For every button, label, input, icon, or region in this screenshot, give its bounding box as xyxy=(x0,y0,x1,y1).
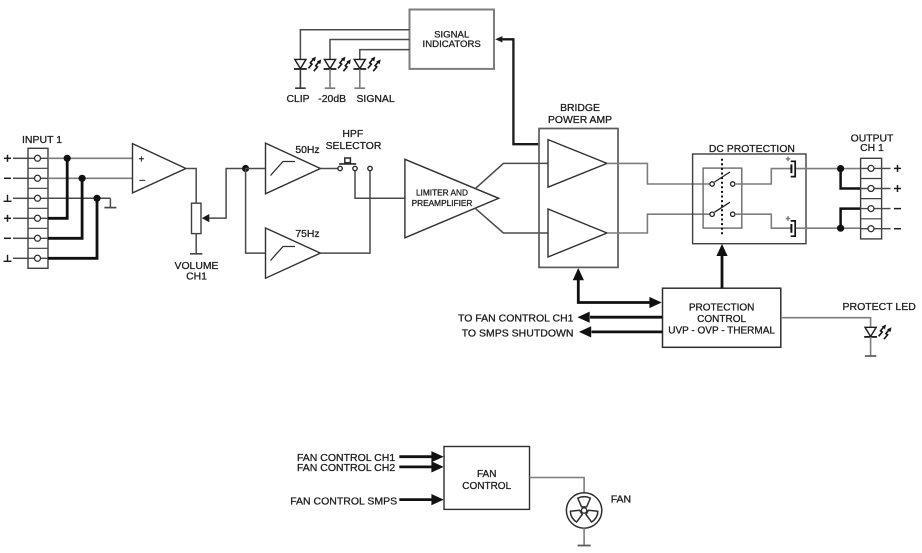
label VOLUME CH1 xyxy=(175,261,219,283)
node B junction dot xyxy=(837,165,844,172)
relay contact circles xyxy=(710,182,735,217)
pin label - (output 3) xyxy=(894,208,901,210)
amplifier bottom (bridge) xyxy=(548,209,607,257)
pin label - (terminal 5) xyxy=(4,237,11,239)
svg-text:75Hz: 75Hz xyxy=(295,229,319,240)
svg-text:LIMITER AND: LIMITER AND xyxy=(416,188,468,198)
wire node A down to 75Hz filter xyxy=(246,169,266,254)
potentiometer VOLUME CH1 xyxy=(192,203,210,233)
wire pot wiper to node A xyxy=(209,169,242,219)
ground stub (fan) xyxy=(578,545,591,547)
ground symbol (input) xyxy=(104,198,116,207)
wire terminal 1 to op-amp + input xyxy=(48,157,133,159)
svg-text:CH 1: CH 1 xyxy=(860,143,884,154)
wire switch contact 2 to limiter input xyxy=(355,171,405,199)
fan M1 xyxy=(566,493,601,528)
svg-text:PROTECT LED: PROTECT LED xyxy=(843,301,917,313)
label FAN CONTROL xyxy=(462,469,511,492)
wire to smps shutdown (arrow left) xyxy=(579,326,663,337)
wire protection control to DC protection (arrow up) xyxy=(716,244,727,288)
svg-text:HPF: HPF xyxy=(342,129,363,140)
wire fan control to fan M1 xyxy=(530,478,585,493)
wire fan control smps (arrow right) xyxy=(399,494,443,505)
wire to fan control ch1 (arrow left) xyxy=(577,312,662,323)
wire through input cells xyxy=(28,158,48,258)
wire bridge amp to signal indicators (arrow) xyxy=(495,36,539,144)
terminal circles (input block) xyxy=(35,155,41,261)
label PROTECTION CONTROL UVP-OVP-THERMAL xyxy=(668,302,775,336)
relay contact top lever xyxy=(715,172,731,182)
label BRIDGE POWER AMP xyxy=(548,103,612,126)
wire jumper terminal 5 to terminal 2 xyxy=(48,178,82,238)
svg-text:FAN: FAN xyxy=(611,494,631,506)
terminal block J1 (input) xyxy=(28,148,48,268)
svg-text:POWER AMP: POWER AMP xyxy=(548,115,612,126)
svg-text:CH1: CH1 xyxy=(186,272,207,283)
svg-text:SIGNAL: SIGNAL xyxy=(357,94,395,105)
wire signal LED to indicators box xyxy=(360,50,410,59)
wire node C to output terminal 3 xyxy=(841,209,861,229)
LED D2 -20dB xyxy=(324,57,351,89)
wire capacitor C1 to output node B xyxy=(796,168,861,170)
wire terminal 2 to op-amp - input xyxy=(48,177,133,179)
relay contact bottom lever xyxy=(715,202,731,212)
svg-text:BRIDGE: BRIDGE xyxy=(560,103,600,114)
wire pot bottom to ground xyxy=(195,234,197,254)
wire fan control ch1 (arrow right) xyxy=(399,451,443,462)
wire 50Hz output to switch contact 1 xyxy=(320,168,338,170)
svg-text:FAN CONTROL CH2: FAN CONTROL CH2 xyxy=(297,462,395,474)
wire stub terminal 6 left xyxy=(13,257,28,259)
svg-text:TO SMPS SHUTDOWN: TO SMPS SHUTDOWN xyxy=(462,327,574,339)
pin label ground (terminal 6) xyxy=(4,255,12,261)
label SIGNAL INDICATORS xyxy=(423,30,481,51)
op-amp U1 input buffer xyxy=(133,144,186,193)
svg-text:50Hz: 50Hz xyxy=(295,145,319,156)
terminal circles (output block) xyxy=(868,165,874,231)
pin label + (output 2) xyxy=(894,185,901,192)
svg-text:CONTROL: CONTROL xyxy=(462,481,511,492)
wire node A to 50Hz filter xyxy=(246,168,266,170)
junction dot terminal2/terminal5 xyxy=(79,175,86,182)
capacitor C2 (bottom, polarized) xyxy=(786,216,796,236)
wire relay top to capacitor C1 xyxy=(735,169,791,184)
wire protection control to protect LED xyxy=(781,318,871,327)
wire op-amp output to volume pot xyxy=(186,169,196,204)
relay actuator dotted line xyxy=(721,159,723,235)
svg-text:–: – xyxy=(140,175,146,186)
relay inner box xyxy=(703,168,742,228)
wire capacitor C2 to output node C xyxy=(796,227,861,229)
wire stub terminal 1 left xyxy=(13,157,28,159)
pin label - (output 4) xyxy=(894,228,901,230)
wire 75Hz output to switch contact 3 xyxy=(320,171,370,253)
50Hz HPF filter block xyxy=(266,143,321,194)
wire bottom amp output to DC protection xyxy=(607,214,710,233)
label OUTPUT CH 1 xyxy=(851,133,894,154)
svg-text:FAN: FAN xyxy=(477,469,496,480)
pin label + (terminal 1) xyxy=(4,155,11,162)
LED D4 PROTECT xyxy=(864,325,891,357)
signal indicators box xyxy=(410,10,495,69)
svg-text:-20dB: -20dB xyxy=(318,94,346,105)
wire fan to ground stub xyxy=(583,528,585,545)
svg-text:TO FAN CONTROL CH1: TO FAN CONTROL CH1 xyxy=(458,312,574,324)
junction dot terminal3/terminal6 xyxy=(93,195,100,202)
svg-text:CONTROL: CONTROL xyxy=(697,314,746,325)
terminal block J2 (output) xyxy=(861,158,882,239)
pin label - (terminal 2) xyxy=(4,177,11,179)
wire jumper terminal 6 to terminal 3 xyxy=(48,198,97,258)
pin label + (output 1) xyxy=(894,165,901,172)
ground symbol (pot) xyxy=(190,253,202,255)
wire stub terminal 2 left xyxy=(13,177,28,179)
svg-text:PREAMPLIFIER: PREAMPLIFIER xyxy=(412,198,473,208)
wire jumper terminal 4 to terminal 1 xyxy=(48,158,67,218)
svg-text:INDICATORS: INDICATORS xyxy=(423,39,481,50)
pin label ground (terminal 3) xyxy=(4,195,12,202)
limiter and preamplifier block xyxy=(405,159,499,238)
wire relay bottom to capacitor C2 xyxy=(735,214,791,228)
wire stub terminal 4 left xyxy=(13,217,28,219)
switch contact circles xyxy=(338,166,372,170)
wire top amp output to DC protection xyxy=(607,163,710,184)
label HPF SELECTOR xyxy=(326,129,382,152)
svg-text:+: + xyxy=(139,155,145,166)
svg-text:CLIP: CLIP xyxy=(287,94,310,105)
dc protection outer box xyxy=(693,154,806,244)
LED D1 CLIP xyxy=(294,57,321,89)
node C junction dot xyxy=(837,225,844,232)
svg-text:FAN CONTROL SMPS: FAN CONTROL SMPS xyxy=(290,495,397,507)
wire stub terminal 3 left xyxy=(13,197,28,199)
bridge power amp box xyxy=(539,129,618,268)
svg-text:SELECTOR: SELECTOR xyxy=(326,141,382,152)
protection control box xyxy=(663,288,781,347)
capacitor C1 (top, polarized) xyxy=(786,157,796,177)
svg-text:PROTECTION: PROTECTION xyxy=(689,302,755,313)
wire clip LED to indicators box xyxy=(300,30,409,59)
fan control box xyxy=(444,447,530,510)
amplifier top (bridge) xyxy=(548,140,607,188)
svg-text:INPUT 1: INPUT 1 xyxy=(22,134,62,146)
75Hz HPF filter block xyxy=(266,228,321,278)
wire terminal 3 to ground xyxy=(48,197,110,199)
pushbutton switch HPF selector xyxy=(339,158,356,164)
wire -20dB LED to indicators box xyxy=(330,40,410,60)
wire fan control ch2 (arrow right) xyxy=(399,461,443,472)
wire node B to output terminal 2 xyxy=(841,169,861,189)
wire limiter output to top bridge amp xyxy=(475,163,548,188)
wire protection control to bridge amp (double arrow) xyxy=(573,268,662,308)
LED D3 SIGNAL xyxy=(353,57,380,89)
wire through output cells xyxy=(861,168,891,228)
junction dot terminal1/terminal4 xyxy=(64,155,71,162)
pin label + (terminal 4) xyxy=(4,215,11,222)
svg-text:UVP - OVP - THERMAL: UVP - OVP - THERMAL xyxy=(668,325,775,336)
svg-text:VOLUME: VOLUME xyxy=(175,261,219,272)
wire limiter output to bottom bridge amp xyxy=(475,208,548,233)
node A junction dot xyxy=(242,165,249,172)
wire stub terminal 5 left xyxy=(13,237,28,239)
